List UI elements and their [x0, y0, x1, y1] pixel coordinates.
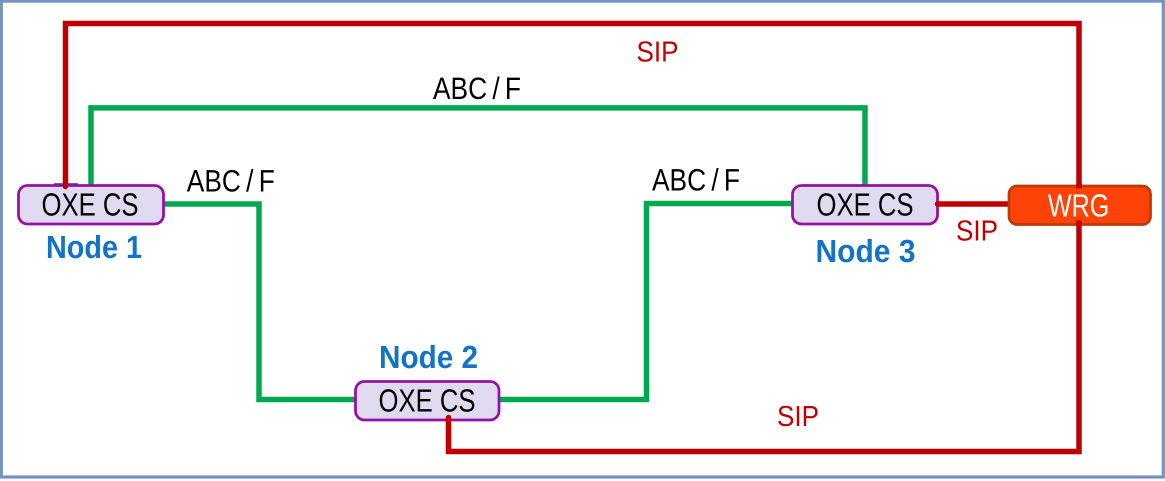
hidden connector stub above Node1 — [54, 183, 78, 185]
svg-text:Node 2: Node 2 — [379, 339, 478, 375]
svg-text:ABC / F: ABC / F — [652, 163, 740, 198]
wire stub red into WRG bottom border — [1076, 221, 1082, 227]
svg-text:OXE CS: OXE CS — [42, 186, 139, 222]
svg-text:WRG: WRG — [1048, 188, 1110, 224]
wire ABC/F left (Node1 right to Node2 left) — [162, 204, 357, 400]
node box WRG — [1009, 186, 1151, 225]
wire SIP top loop (Node1 top to WRG top) — [66, 24, 1080, 189]
wire ABC/F right (Node2 right to Node3 left) — [497, 204, 794, 400]
svg-text:Node 1: Node 1 — [46, 229, 142, 265]
svg-text:OXE CS: OXE CS — [379, 382, 476, 418]
svg-text:SIP: SIP — [956, 216, 998, 248]
svg-text:Node 3: Node 3 — [816, 233, 916, 269]
svg-text:ABC / F: ABC / F — [433, 71, 521, 106]
wire stub red into Node1 top border — [63, 184, 69, 187]
svg-text:SIP: SIP — [777, 401, 819, 433]
wire ABC/F top (Node1 top to Node3 top) — [91, 108, 865, 188]
wire stub red out of Node2 bottom border — [446, 418, 452, 422]
svg-text:OXE CS: OXE CS — [817, 186, 914, 222]
svg-text:SIP: SIP — [637, 37, 679, 69]
wire SIP bottom loop (Node2 bottom to WRG bottom) — [449, 222, 1080, 452]
svg-text:ABC / F: ABC / F — [187, 164, 275, 199]
node box Node1 OXE CS — [19, 186, 164, 225]
node box Node2 OXE CS — [356, 382, 500, 421]
node box Node3 OXE CS — [793, 186, 938, 225]
wire SIP middle (Node3 right to WRG left) — [938, 201, 1013, 207]
wire stub red into WRG top border — [1076, 184, 1082, 189]
